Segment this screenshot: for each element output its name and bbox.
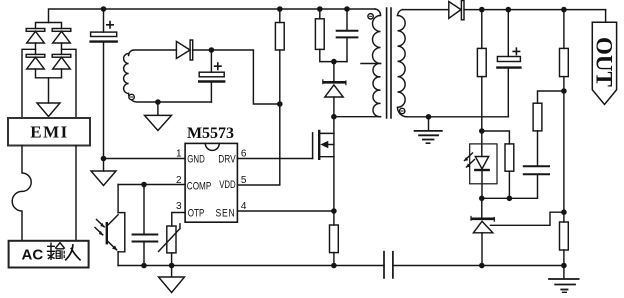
svg-text:6: 6 <box>241 149 247 160</box>
earth ground output <box>549 266 579 293</box>
node snubber junction <box>331 59 337 65</box>
wire AC tap right <box>62 49 77 118</box>
node out diode <box>479 7 485 13</box>
ground arrow aux <box>145 102 172 131</box>
svg-text:3: 3 <box>176 201 182 212</box>
node drain <box>331 114 337 120</box>
wire <box>35 43 37 54</box>
node aux diode out <box>209 47 215 53</box>
wire bridge top tee <box>36 23 62 29</box>
node top rail at R2 <box>317 6 323 12</box>
svg-text:GND: GND <box>187 153 205 165</box>
node divider lower <box>561 209 567 215</box>
diode D4 bridge bottom-right <box>52 54 71 69</box>
node top rail at bulk cap <box>101 6 107 12</box>
capacitor C5 Y-cap <box>384 252 393 278</box>
optocoupler U2 LED side <box>464 131 497 198</box>
wire primary ground rail <box>118 265 384 267</box>
diode D1 bridge top-left <box>26 29 45 44</box>
optocoupler U2 phototransistor <box>95 185 125 266</box>
primary phase dot <box>368 14 373 19</box>
EMI filter block <box>8 118 90 146</box>
node primary GND ref <box>101 156 107 162</box>
transformer secondary winding W2 <box>397 10 508 117</box>
hand-drawn CJK 输 <box>48 243 65 260</box>
diode D2 bridge bottom-left <box>26 54 45 69</box>
earth ground secondary <box>415 117 442 143</box>
wire <box>61 43 63 54</box>
node VDD <box>277 101 283 107</box>
zener diode D8 reference <box>471 198 494 265</box>
IC U1 M5573 <box>176 125 247 222</box>
node comp cap ground <box>141 263 147 269</box>
capacitor C3 snubber <box>337 9 358 62</box>
wire bridge output stem <box>48 78 50 103</box>
hand-drawn CJK 入 <box>66 245 80 260</box>
resistor R2 snubber <box>315 9 347 62</box>
capacitor C2 aux electrolytic <box>199 50 224 102</box>
primary mid tap stub <box>361 63 377 65</box>
node out right <box>561 7 567 13</box>
transformer aux winding W3 <box>124 50 212 102</box>
node secondary ground <box>426 114 432 120</box>
svg-text:AC: AC <box>22 247 44 264</box>
wire pin2 COMP <box>118 184 185 186</box>
wire top rail primary <box>49 9 376 23</box>
svg-text:OTP: OTP <box>188 207 205 219</box>
wire EMI to AC right <box>75 146 77 241</box>
OUT banner <box>592 10 617 105</box>
node out cap <box>506 7 512 13</box>
svg-text:M5573: M5573 <box>187 125 234 142</box>
node aux return <box>155 99 161 105</box>
node top rail at snubber cap <box>344 6 350 12</box>
node divider <box>561 88 567 94</box>
svg-text:COMP: COMP <box>187 180 212 192</box>
wire AC tap left <box>22 49 36 118</box>
ground arrow primary <box>91 171 116 186</box>
capacitor C4 comp <box>133 185 158 266</box>
resistor R6 LED series <box>505 144 514 198</box>
transformer primary winding W1 <box>334 9 381 117</box>
secondary phase dot <box>400 108 405 113</box>
svg-text:5: 5 <box>241 175 247 186</box>
zener diode D6 clamp <box>323 62 346 117</box>
diode D5 aux rectifier <box>176 40 192 60</box>
resistor R3 current sense <box>330 211 339 266</box>
svg-text:4: 4 <box>241 201 247 212</box>
node SEN <box>331 208 337 214</box>
resistor R5 divider upper <box>560 10 569 91</box>
resistor R8 compensation <box>533 91 564 166</box>
node top rail at R1 <box>277 6 283 12</box>
arrow into EMI <box>37 103 60 117</box>
svg-text:DRV: DRV <box>218 153 236 165</box>
resistor R7 divider lower <box>560 212 569 265</box>
AC input block <box>9 241 89 268</box>
node COMP <box>141 182 147 188</box>
wire zener to divider <box>491 212 564 225</box>
wire pin4 SEN <box>237 210 334 212</box>
svg-text:SEN: SEN <box>216 207 236 219</box>
node LED feed <box>479 128 485 134</box>
resistor R4 feedback upper <box>477 10 486 131</box>
ground arrow control <box>159 266 185 293</box>
svg-text:EMI: EMI <box>30 123 69 142</box>
svg-text:OUT: OUT <box>592 37 617 87</box>
diode D7 output rectifier <box>449 1 606 20</box>
MOSFET Q1 <box>313 117 334 211</box>
svg-text:1: 1 <box>176 149 182 160</box>
svg-text:VDD: VDD <box>219 179 236 191</box>
node earth <box>561 263 567 269</box>
wire pin1 GND to bulk line <box>104 158 186 160</box>
varistor RV1 <box>159 224 181 266</box>
aux winding phase dot <box>129 94 134 99</box>
node R6 bottom <box>507 196 513 202</box>
node OTP ground <box>169 263 175 269</box>
capacitor C1 bulk electrolytic <box>91 9 117 171</box>
wire VDD to pin5 <box>237 104 279 185</box>
wire pin3 OTP <box>172 213 185 227</box>
capacitor C6 output electrolytic <box>497 10 520 117</box>
wire DRV to gate <box>237 158 312 160</box>
node zener ground <box>479 263 485 269</box>
transformer core <box>387 8 391 118</box>
diode D3 bridge top-right <box>52 29 71 44</box>
fuse F1 <box>12 146 31 241</box>
resistor R1 VDD feed <box>275 9 284 104</box>
capacitor C7 compensation <box>482 166 549 198</box>
wire divider down <box>563 91 565 212</box>
node sense ground <box>331 263 337 269</box>
wire secondary ground rail <box>393 265 564 267</box>
wire bridge bottom join <box>36 69 62 78</box>
node LED bottom <box>479 196 485 202</box>
wire aux supply <box>193 50 280 104</box>
wire LED feed to R6 <box>482 131 510 144</box>
